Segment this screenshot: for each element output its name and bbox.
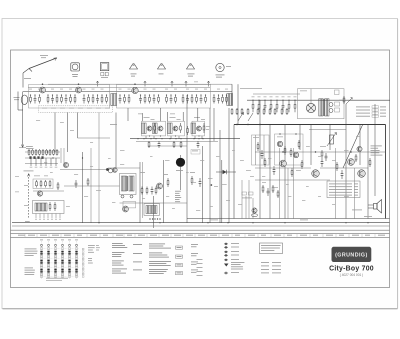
svg-text:City-Boy 700: City-Boy 700 <box>329 266 374 273</box>
svg-text:( 4027 004 001 ): ( 4027 004 001 ) <box>340 273 363 277</box>
svg-text:(GRUNDIG): (GRUNDIG) <box>335 252 368 258</box>
